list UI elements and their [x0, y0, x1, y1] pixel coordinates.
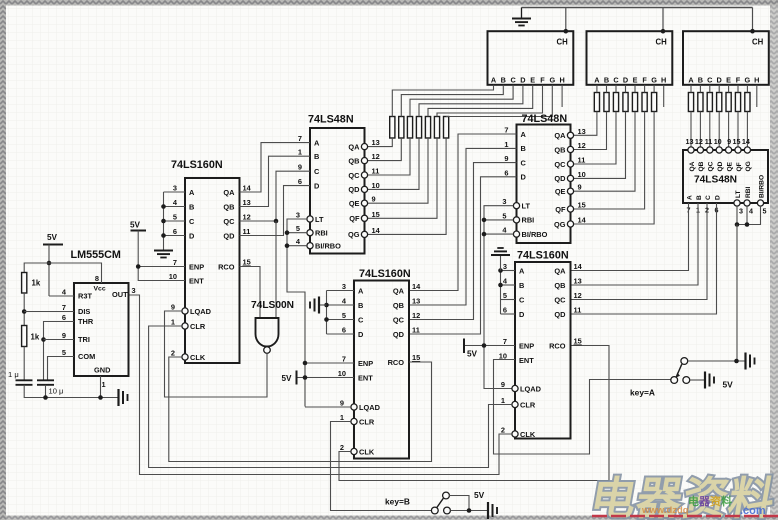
- svg-text:QB: QB: [554, 145, 565, 154]
- svg-text:6: 6: [62, 313, 66, 322]
- wire bank2 R5 to 48N2 QE: [574, 112, 635, 192]
- svg-text:6: 6: [298, 177, 302, 186]
- svg-text:13: 13: [686, 137, 694, 146]
- wire D1 pin G to bank1 R7: [446, 85, 552, 117]
- capacitor C1 1u: [16, 379, 33, 381]
- ground key B: [487, 502, 489, 519]
- wire CLR2 to key B: [331, 422, 432, 511]
- wire D3 pin E to bank3 R5: [728, 85, 730, 93]
- svg-text:C: C: [521, 158, 527, 167]
- svg-text:QE: QE: [555, 187, 566, 196]
- wire bank2 R3 to 48N2 QC: [574, 112, 616, 165]
- svg-text:QA: QA: [348, 142, 360, 151]
- svg-text:3: 3: [502, 197, 506, 206]
- svg-text:74LS48N: 74LS48N: [522, 113, 568, 125]
- junction on D3 top: [750, 29, 755, 34]
- wire CLK3 to 555 OUT bus: [129, 295, 512, 475]
- wire 160N3 QD to 48N3 D: [571, 203, 717, 314]
- ground key A throw: [704, 372, 706, 389]
- key B lever: [437, 498, 444, 508]
- ground 555 (right bars): [117, 389, 119, 406]
- svg-text:B: B: [698, 75, 703, 84]
- wire bank2 R2 to 48N2 QB: [574, 112, 607, 150]
- junction ENT2 chain: [303, 375, 308, 380]
- svg-text:A: A: [594, 75, 600, 84]
- svg-text:E: E: [726, 75, 731, 84]
- wire R1 to R2 / DIS junction: [23, 293, 25, 326]
- wire 160N1 QB to 48N1 B: [240, 156, 311, 206]
- svg-text:D: D: [519, 310, 525, 319]
- svg-text:RBI: RBI: [745, 186, 752, 198]
- svg-text:12: 12: [412, 311, 420, 320]
- wire 160N3 B stub: [501, 284, 516, 286]
- svg-text:LQAD: LQAD: [520, 384, 542, 393]
- wire D2 pin G to bank2 R7: [653, 85, 655, 93]
- wire 5V to R1: [24, 263, 49, 273]
- svg-text:6: 6: [504, 168, 508, 177]
- 160N3 CLK pin 2: [512, 431, 518, 437]
- wire rail drop to D1: [565, 8, 567, 32]
- watermark red underline: [592, 515, 778, 518]
- svg-text:5: 5: [62, 348, 66, 357]
- svg-text:1 μ: 1 μ: [8, 370, 19, 379]
- scan border top: [0, 0, 778, 6]
- wire 160N3 A stub: [501, 270, 516, 272]
- wire 160N2 QB to 48N2 B: [409, 148, 517, 305]
- svg-text:15: 15: [578, 201, 586, 210]
- svg-text:5V: 5V: [130, 221, 141, 230]
- 7-segment display D1: [488, 31, 574, 85]
- wire 160N1 QA to 48N1 A: [240, 143, 311, 192]
- svg-text:A: A: [189, 188, 195, 197]
- wire bank1 R5 to 48N1 QE: [368, 138, 428, 203]
- svg-text:A: A: [314, 138, 320, 147]
- svg-text:C: C: [510, 75, 516, 84]
- svg-text:B: B: [519, 281, 524, 290]
- wire bank1 R3 to 48N1 QC: [368, 138, 410, 175]
- svg-text:H: H: [559, 75, 564, 84]
- wire D3 pin A to bank3 R1: [690, 85, 692, 93]
- wire bank3 R4 to 48N3 QD: [718, 112, 720, 148]
- svg-text:14: 14: [412, 282, 421, 291]
- svg-text:7: 7: [503, 337, 507, 346]
- 48N3 output QG pin 14: [744, 147, 750, 153]
- wire bank3 R5 to 48N3 QE: [728, 112, 730, 148]
- 48N1 input LT pin 3: [307, 216, 313, 222]
- svg-text:15: 15: [372, 210, 380, 219]
- svg-text:14: 14: [372, 226, 381, 235]
- svg-text:A: A: [519, 266, 525, 275]
- junction DIS node: [22, 309, 27, 314]
- junction ENP3 chain: [482, 343, 487, 348]
- svg-text:5: 5: [763, 207, 767, 216]
- resistor R1 1k: [22, 273, 27, 294]
- 48N2 input BI/RBO pin 4: [513, 231, 519, 237]
- svg-text:12: 12: [578, 141, 586, 150]
- svg-text:6: 6: [342, 326, 346, 335]
- wire D1 pin F to bank1 R6: [437, 85, 543, 117]
- svg-text:料: 料: [721, 494, 732, 508]
- wire RCO1 to NAND input A: [240, 267, 261, 319]
- svg-text:C: C: [613, 75, 619, 84]
- svg-text:13: 13: [578, 127, 586, 136]
- key A lever: [676, 364, 682, 377]
- svg-text:QB: QB: [554, 281, 565, 290]
- wire D3 pin D to bank3 R4: [718, 85, 720, 93]
- svg-text:D: D: [520, 75, 525, 84]
- wire 160N2 QA to 48N2 A: [409, 134, 517, 291]
- svg-text:ENP: ENP: [358, 359, 373, 368]
- wire 160N3 C stub: [501, 299, 516, 301]
- junction ENP2 chain: [303, 361, 308, 366]
- svg-text:A: A: [358, 286, 364, 295]
- svg-text:7: 7: [342, 355, 346, 364]
- svg-text:CH: CH: [557, 38, 569, 47]
- resistor bank3 R2: [698, 93, 703, 112]
- wire bank2 R1 to 48N2 QA: [574, 112, 597, 136]
- wire rail drop to D3: [752, 8, 754, 32]
- svg-text:11: 11: [412, 326, 420, 335]
- svg-text:B: B: [604, 75, 609, 84]
- wire D2 pin D to bank2 R4: [625, 85, 627, 93]
- 160N2 CLR pin 1: [351, 418, 357, 424]
- wire COM down to C2: [48, 357, 75, 381]
- junction RBI3 chain: [745, 222, 750, 227]
- wire D1 pin H stub: [561, 85, 563, 107]
- wire rail drop to D2: [662, 8, 664, 32]
- svg-text:THR: THR: [78, 317, 94, 326]
- junction on D2 top: [661, 29, 666, 34]
- svg-text:15: 15: [574, 337, 582, 346]
- svg-text:BI/RBO: BI/RBO: [315, 242, 341, 251]
- svg-text:7: 7: [298, 134, 302, 143]
- svg-text:RBI: RBI: [315, 229, 328, 238]
- svg-text:74LS160N: 74LS160N: [171, 159, 223, 171]
- 7-segment display D2: [587, 31, 673, 85]
- 160N1 CLR pin 1: [182, 323, 188, 329]
- svg-text:QC: QC: [223, 217, 235, 226]
- wire bank3 R1 to 48N3 QA: [690, 112, 692, 148]
- wire bank3 R6 to 48N3 QF: [737, 112, 739, 148]
- 160N3 LQAD pin 9: [512, 385, 518, 391]
- junction BI1: [285, 243, 290, 248]
- svg-text:10: 10: [578, 170, 586, 179]
- svg-text:4: 4: [749, 207, 753, 216]
- svg-text:14: 14: [243, 184, 252, 193]
- wire CLR3 to CLR1 bus: [149, 326, 512, 468]
- wire 160N2 C stub: [327, 319, 355, 321]
- wire 48N1 LT/RBI/BI chain: [287, 219, 307, 407]
- junction 160N3 B: [498, 283, 503, 288]
- svg-text:Vcc: Vcc: [94, 286, 106, 293]
- svg-text:LQAD: LQAD: [190, 307, 212, 316]
- svg-text:1: 1: [102, 380, 106, 389]
- svg-text:OUT: OUT: [112, 290, 128, 299]
- wire 160N3 QC to 48N3 C: [571, 203, 708, 300]
- wire 160N2 A stub: [327, 290, 355, 292]
- svg-text:D: D: [623, 75, 628, 84]
- svg-text:5: 5: [296, 224, 300, 233]
- svg-text:3: 3: [503, 262, 507, 271]
- junction 160N1 D: [161, 233, 166, 238]
- svg-text:G: G: [549, 75, 555, 84]
- svg-text:QC: QC: [554, 295, 566, 304]
- svg-text:QD: QD: [717, 161, 724, 171]
- 48N3 input LT pin 3: [734, 200, 740, 206]
- svg-text:DIS: DIS: [78, 307, 90, 316]
- svg-text:BI/RBO: BI/RBO: [759, 175, 766, 198]
- 7-segment display D3: [683, 31, 769, 85]
- svg-text:QD: QD: [223, 231, 235, 240]
- resistor bank1 R7: [444, 117, 449, 139]
- resistor bank3 R3: [707, 93, 712, 112]
- svg-text:key=A: key=A: [630, 388, 655, 398]
- svg-text:B: B: [501, 75, 506, 84]
- 160N2 LQAD pin 9: [351, 404, 357, 410]
- svg-text:CLR: CLR: [520, 400, 536, 409]
- junction key B 5V node: [467, 508, 472, 513]
- key B throw terminal: [444, 507, 451, 514]
- 160N1 CLK pin 2: [182, 354, 188, 360]
- svg-text:CLR: CLR: [359, 417, 375, 426]
- svg-text:10: 10: [338, 369, 346, 378]
- wire 160N2 B stub: [327, 304, 355, 306]
- wire D2 pin E to bank2 R5: [634, 85, 636, 93]
- svg-text:C: C: [705, 195, 712, 200]
- resistor bank1 R6: [434, 117, 439, 139]
- svg-text:5: 5: [503, 291, 507, 300]
- svg-text:CH: CH: [656, 38, 668, 47]
- svg-text:5: 5: [173, 213, 177, 222]
- scan border bottom: [0, 516, 778, 521]
- svg-text:QF: QF: [736, 162, 743, 171]
- svg-text:R3T: R3T: [78, 292, 92, 301]
- svg-text:7: 7: [504, 126, 508, 135]
- svg-text:1k: 1k: [32, 279, 41, 288]
- wire C2 bottom: [45, 385, 47, 398]
- svg-text:74LS00N: 74LS00N: [251, 300, 294, 311]
- svg-text:B: B: [521, 144, 526, 153]
- wire THR to TRI chain: [44, 322, 75, 381]
- junction 160N1 C: [161, 219, 166, 224]
- svg-text:BI/RBO: BI/RBO: [522, 230, 548, 239]
- wire 160N1 QC to 48N1 C: [240, 171, 311, 221]
- wire D1 pin D to bank1 R4: [419, 85, 523, 117]
- svg-text:5: 5: [342, 311, 346, 320]
- svg-text:12: 12: [372, 152, 380, 161]
- 48N3 output QC pin 11: [707, 147, 713, 153]
- junction BI2: [482, 232, 487, 237]
- resistor bank2 R6: [642, 93, 647, 112]
- svg-text:ENT: ENT: [358, 373, 373, 382]
- key A throw terminal: [683, 377, 690, 384]
- svg-text:9: 9: [340, 399, 344, 408]
- svg-text:10: 10: [714, 137, 722, 146]
- svg-text:LT: LT: [315, 215, 324, 224]
- key B upper terminal: [443, 492, 450, 499]
- junction key A / 48N3 chain: [734, 359, 739, 364]
- svg-text:ENP: ENP: [519, 341, 534, 350]
- wire D1 pin E to bank1 R5: [428, 85, 533, 117]
- wire QC1 tap to NAND input B: [275, 221, 277, 318]
- junction 160N2 B: [324, 303, 329, 308]
- svg-text:key=B: key=B: [385, 497, 410, 507]
- 160N2 CLK pin 2: [351, 448, 357, 454]
- wire bank2 R6 to 48N2 QF: [574, 112, 645, 210]
- junction C2 gnd: [43, 395, 48, 400]
- svg-text:QE: QE: [349, 199, 360, 208]
- svg-text:TRI: TRI: [78, 335, 90, 344]
- 48N2 input RBI pin 5: [513, 217, 519, 223]
- svg-text:QB: QB: [348, 156, 359, 165]
- wire 160N2 QD to 48N2 D: [409, 177, 517, 334]
- svg-text:11: 11: [372, 167, 380, 176]
- svg-text:9: 9: [578, 183, 582, 192]
- svg-text:10: 10: [169, 272, 177, 281]
- junction ENP1 5V: [136, 264, 141, 269]
- svg-text:QB: QB: [223, 202, 234, 211]
- svg-text:9: 9: [62, 331, 66, 340]
- wire 160N3 QB to 48N3 B: [571, 203, 699, 285]
- junction 555 gnd: [98, 395, 103, 400]
- wire bank1 R1 to 48N1 QA: [368, 138, 393, 147]
- 48N3 output QF pin 15: [735, 147, 741, 153]
- junction 160N2 C: [324, 317, 329, 322]
- svg-text:5V: 5V: [467, 350, 478, 359]
- resistor bank2 R1: [594, 93, 599, 112]
- wire bank3 R2 to 48N3 QB: [699, 112, 701, 148]
- wire D2 pin C to bank2 R3: [615, 85, 617, 93]
- svg-text:C: C: [314, 167, 320, 176]
- svg-text:12: 12: [574, 291, 582, 300]
- svg-text:QC: QC: [554, 160, 566, 169]
- ground 160N3 inputs (above): [500, 256, 502, 271]
- svg-text:B: B: [696, 195, 703, 200]
- wire top ground rail: [522, 7, 753, 9]
- wire bank1 R4 to 48N1 QD: [368, 138, 419, 189]
- wire 5V to Vcc pin 8: [49, 263, 102, 283]
- 48N3 input BI/RBO pin 5: [757, 200, 763, 206]
- svg-text:QD: QD: [554, 310, 566, 319]
- svg-text:5V: 5V: [723, 380, 734, 390]
- 48N3 output QE pin 9: [726, 147, 732, 153]
- svg-text:A: A: [491, 75, 497, 84]
- wire 160N1 B stub: [164, 206, 186, 208]
- wire 160N2 QC to 48N2 C: [409, 163, 517, 320]
- resistor bank1 R4: [416, 117, 421, 139]
- svg-text:13: 13: [574, 277, 582, 286]
- svg-text:LM555CM: LM555CM: [71, 249, 121, 261]
- 48N3 input RBI pin 4: [744, 200, 750, 206]
- svg-text:11: 11: [574, 306, 582, 315]
- wire key B upper loop: [449, 496, 469, 511]
- svg-text:D: D: [717, 75, 722, 84]
- wire 160N1 ABCD chain: [163, 192, 165, 251]
- wire bank2 R4 to 48N2 QD: [574, 112, 626, 179]
- svg-text:资: 资: [710, 494, 721, 508]
- watermark big text: [587, 473, 778, 524]
- svg-text:C: C: [519, 295, 525, 304]
- svg-text:9: 9: [504, 154, 508, 163]
- svg-text:QC: QC: [708, 161, 715, 171]
- svg-text:LT: LT: [735, 190, 742, 198]
- wire ENT3 to key A: [494, 360, 672, 455]
- svg-text:QF: QF: [555, 205, 566, 214]
- svg-text:15: 15: [243, 258, 251, 267]
- resistor bank3 R6: [735, 93, 740, 112]
- svg-text:C: C: [358, 315, 364, 324]
- junction 5V node: [47, 261, 52, 266]
- svg-text:6: 6: [503, 306, 507, 315]
- svg-text:D: D: [715, 195, 722, 200]
- svg-text:LQAD: LQAD: [359, 403, 381, 412]
- svg-text:3: 3: [132, 286, 136, 295]
- wire D2 pin F to bank2 R6: [644, 85, 646, 93]
- svg-text:QB: QB: [393, 301, 404, 310]
- svg-text:RCO: RCO: [388, 358, 405, 367]
- svg-text:3: 3: [173, 184, 177, 193]
- svg-text:9: 9: [298, 163, 302, 172]
- svg-text:11: 11: [243, 227, 251, 236]
- svg-text:3: 3: [296, 211, 300, 220]
- svg-text:F: F: [540, 75, 545, 84]
- svg-text:G: G: [651, 75, 657, 84]
- svg-text:COM: COM: [78, 352, 95, 361]
- svg-text:QD: QD: [348, 185, 360, 194]
- ground at top rail: [521, 8, 523, 18]
- wire ENP3 stub to 5V: [464, 345, 515, 347]
- svg-text:B: B: [314, 152, 319, 161]
- key A pole terminal: [671, 377, 678, 384]
- svg-text:C: C: [707, 75, 713, 84]
- svg-text:74LS160N: 74LS160N: [359, 268, 411, 280]
- wire 48N2 LT/RBI/BI chain to ENP3/LQAD3: [484, 206, 513, 389]
- svg-text:3: 3: [342, 282, 346, 291]
- svg-text:15: 15: [412, 353, 420, 362]
- svg-text:74LS160N: 74LS160N: [517, 250, 569, 262]
- 48N2 input LT pin 3: [513, 203, 519, 209]
- svg-text:RCO: RCO: [218, 262, 235, 271]
- svg-text:H: H: [661, 75, 666, 84]
- wire 160N3 QA to 48N3 A: [571, 203, 689, 271]
- svg-text:QB: QB: [698, 161, 705, 171]
- wire bank1 R6 to 48N1 QF: [368, 138, 437, 218]
- wire 160N2 D stub: [327, 333, 355, 335]
- svg-text:QA: QA: [393, 286, 405, 295]
- svg-text:LT: LT: [522, 202, 531, 211]
- svg-text:14: 14: [574, 262, 583, 271]
- wire R2 to C1: [23, 347, 25, 381]
- svg-text:C: C: [189, 217, 195, 226]
- resistor bank2 R7: [652, 93, 657, 112]
- svg-text:E: E: [633, 75, 638, 84]
- svg-text:QA: QA: [554, 266, 566, 275]
- svg-text:QG: QG: [348, 230, 360, 239]
- wire DIS stub: [24, 311, 74, 313]
- svg-text:1: 1: [340, 413, 344, 422]
- ground key A upper: [744, 353, 746, 370]
- svg-text:1: 1: [501, 396, 505, 405]
- ground 160N2 inputs (left): [319, 304, 327, 306]
- junction 160N3 A: [498, 268, 503, 273]
- wire D1 pin B to bank1 R2: [401, 85, 503, 117]
- svg-text:GND: GND: [94, 366, 111, 375]
- svg-text:ENT: ENT: [189, 276, 204, 285]
- svg-text:11: 11: [578, 156, 586, 165]
- 48N1 input BI/RBO pin 4: [307, 243, 313, 249]
- svg-text:D: D: [189, 231, 195, 240]
- svg-text:5V: 5V: [282, 374, 293, 383]
